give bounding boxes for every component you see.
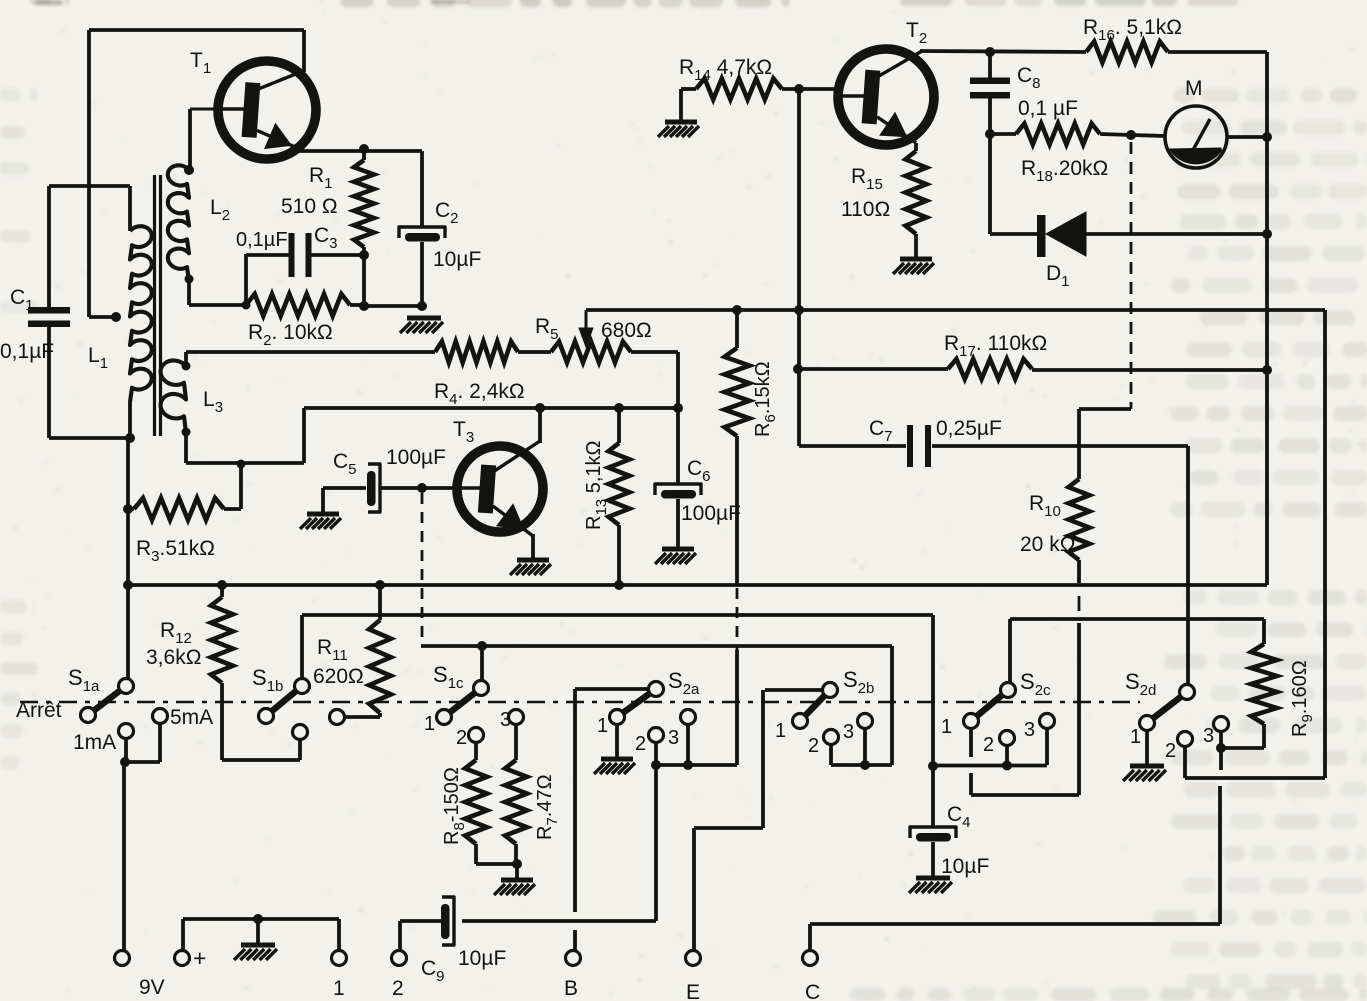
- svg-text:680Ω: 680Ω: [601, 319, 652, 342]
- svg-text:1: 1: [424, 713, 435, 735]
- svg-text:5mA: 5mA: [170, 706, 213, 729]
- svg-text:C: C: [805, 981, 820, 1001]
- svg-text:0,1µF: 0,1µF: [0, 340, 54, 363]
- svg-text:2: 2: [456, 727, 467, 749]
- svg-text:100µF: 100µF: [386, 446, 446, 469]
- svg-text:100µF: 100µF: [681, 502, 741, 525]
- svg-text:1: 1: [1130, 726, 1141, 748]
- svg-text:3,6kΩ: 3,6kΩ: [146, 646, 201, 669]
- svg-text:0,25µF: 0,25µF: [936, 417, 1002, 440]
- svg-text:0,1µF: 0,1µF: [236, 229, 288, 251]
- svg-text:1: 1: [775, 720, 786, 742]
- svg-text:B: B: [564, 977, 578, 1000]
- svg-text:510 Ω: 510 Ω: [281, 195, 338, 218]
- svg-text:0,1 µF: 0,1 µF: [1018, 97, 1078, 120]
- svg-text:2: 2: [808, 735, 819, 757]
- svg-text:2: 2: [983, 734, 994, 756]
- svg-text:E: E: [686, 981, 700, 1001]
- svg-text:1mA: 1mA: [73, 731, 116, 754]
- svg-text:M: M: [1185, 77, 1203, 100]
- svg-text:Arrêt: Arrêt: [16, 699, 62, 722]
- svg-text:1: 1: [941, 716, 952, 738]
- svg-text:3: 3: [500, 709, 511, 731]
- svg-text:3: 3: [1024, 719, 1035, 741]
- svg-text:110Ω: 110Ω: [841, 198, 890, 221]
- svg-text:3: 3: [668, 727, 679, 749]
- svg-text:2: 2: [392, 977, 404, 1000]
- svg-text:20 kΩ: 20 kΩ: [1020, 533, 1075, 556]
- svg-text:2: 2: [1165, 740, 1176, 762]
- svg-text:1: 1: [597, 715, 608, 737]
- svg-text:2: 2: [635, 733, 646, 755]
- svg-text:+: +: [193, 945, 206, 971]
- svg-text:1: 1: [333, 977, 345, 1000]
- svg-text:3: 3: [843, 721, 854, 743]
- svg-text:620Ω: 620Ω: [313, 665, 364, 688]
- svg-text:10µF: 10µF: [458, 947, 506, 970]
- svg-text:3: 3: [1203, 725, 1214, 747]
- svg-text:10µF: 10µF: [433, 248, 481, 271]
- svg-text:10µF: 10µF: [941, 855, 989, 878]
- svg-text:9V: 9V: [139, 976, 165, 999]
